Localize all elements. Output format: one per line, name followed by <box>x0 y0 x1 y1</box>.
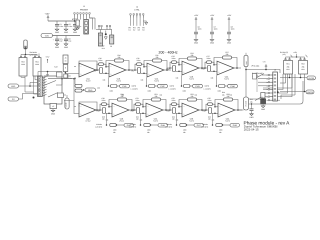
svg-text:10u: 10u <box>68 40 71 43</box>
svg-text:22k: 22k <box>155 95 158 98</box>
svg-text:22k: 22k <box>227 95 230 98</box>
svg-text:GND: GND <box>55 31 60 34</box>
svg-text:R25: R25 <box>167 110 170 113</box>
svg-text:100n: 100n <box>59 25 63 28</box>
svg-text:R12: R12 <box>167 68 170 71</box>
svg-text:TL072: TL072 <box>86 79 91 82</box>
svg-text:100n: 100n <box>207 57 211 60</box>
svg-text:TL072: TL072 <box>225 119 230 122</box>
svg-text:TL072: TL072 <box>153 119 158 122</box>
svg-text:R28: R28 <box>203 110 206 113</box>
svg-text:100n: 100n <box>172 99 176 102</box>
svg-text:10k: 10k <box>140 118 143 121</box>
svg-text:S2: S2 <box>133 29 135 32</box>
svg-text:(PHA 40k): (PHA 40k) <box>252 65 260 68</box>
svg-text:10k: 10k <box>176 76 179 79</box>
svg-text:100n: 100n <box>136 99 140 102</box>
svg-text:TL072: TL072 <box>189 119 194 122</box>
svg-text:22k: 22k <box>226 53 229 56</box>
svg-text:100n: 100n <box>99 59 103 62</box>
svg-text:R19: R19 <box>97 110 100 113</box>
svg-text:200 - 400Hz: 200 - 400Hz <box>159 50 178 54</box>
svg-text:100n: 100n <box>137 59 141 62</box>
svg-text:100n: 100n <box>102 99 106 102</box>
svg-text:GND: GND <box>64 46 69 49</box>
svg-text:MODE: MODE <box>65 102 68 108</box>
svg-text:25k: 25k <box>302 65 305 68</box>
svg-text:J1: J1 <box>83 5 85 8</box>
svg-text:J4: J4 <box>136 5 138 8</box>
svg-text:TL072: TL072 <box>189 77 194 80</box>
svg-text:-15V: -15V <box>45 35 50 38</box>
svg-text:+15V: +15V <box>45 13 51 16</box>
svg-text:LFO: LFO <box>11 85 15 88</box>
svg-text:J2: J2 <box>103 45 105 48</box>
svg-text:22k: 22k <box>191 95 194 98</box>
svg-text:TL072: TL072 <box>116 79 121 82</box>
svg-text:R15: R15 <box>202 68 205 71</box>
svg-text:GND: GND <box>210 42 215 45</box>
svg-text:RV3: RV3 <box>21 60 24 63</box>
svg-text:TL072: TL072 <box>224 77 229 80</box>
svg-text:100n: 100n <box>68 25 72 28</box>
svg-text:22k: 22k <box>156 56 159 59</box>
svg-text:R8: R8 <box>94 70 96 73</box>
svg-text:100k: 100k <box>35 63 39 66</box>
svg-text:+: + <box>62 38 63 41</box>
svg-text:2022-04-15: 2022-04-15 <box>244 127 259 131</box>
svg-text:OUTB: OUTB <box>307 91 313 94</box>
svg-text:10k: 10k <box>106 118 109 121</box>
svg-text:LF412: LF412 <box>86 119 91 122</box>
svg-text:GND: GND <box>250 116 255 119</box>
svg-text:100n: 100n <box>231 28 235 31</box>
svg-text:10k: 10k <box>97 86 100 89</box>
svg-text:10k: 10k <box>211 76 214 79</box>
svg-text:22k: 22k <box>191 54 194 57</box>
svg-text:CTRL: CTRL <box>134 9 140 12</box>
svg-text:S4: S4 <box>142 29 144 32</box>
svg-text:100n: 100n <box>172 57 176 60</box>
svg-text:TL072: TL072 <box>154 79 159 82</box>
svg-text:GND: GND <box>51 112 56 115</box>
svg-text:S3: S3 <box>138 29 140 32</box>
svg-text:RV4: RV4 <box>35 60 38 63</box>
svg-text:SW MAIN: SW MAIN <box>30 51 38 54</box>
svg-text:R9: R9 <box>132 70 134 73</box>
svg-text:POWER: POWER <box>80 9 88 12</box>
svg-text:GND: GND <box>261 108 266 111</box>
svg-text:GND: GND <box>194 42 199 45</box>
svg-text:RV2: RV2 <box>301 63 304 66</box>
svg-text:10k: 10k <box>103 78 106 81</box>
svg-text:100k: 100k <box>21 63 25 66</box>
svg-text:GND: GND <box>227 42 232 45</box>
svg-text:GND: GND <box>73 31 78 34</box>
svg-text:S1: S1 <box>128 29 130 32</box>
svg-text:GND: GND <box>55 46 60 49</box>
svg-text:R22: R22 <box>131 110 134 113</box>
svg-text:OUTA: OUTA <box>309 77 315 80</box>
svg-text:J5: J5 <box>274 69 276 72</box>
svg-text:25k: 25k <box>287 65 290 68</box>
svg-text:10k: 10k <box>176 118 179 121</box>
svg-text:+: + <box>53 38 54 41</box>
svg-text:RV1: RV1 <box>286 63 289 66</box>
svg-text:10k: 10k <box>212 118 215 121</box>
svg-text:22k: 22k <box>121 95 124 98</box>
svg-text:10k: 10k <box>141 78 144 81</box>
svg-text:100n: 100n <box>214 28 218 31</box>
svg-text:RV BAL(?): RV BAL(?) <box>280 51 288 54</box>
svg-text:22k: 22k <box>118 56 121 59</box>
svg-text:100n: 100n <box>208 99 212 102</box>
svg-text:100n: 100n <box>198 28 202 31</box>
svg-text:J3: J3 <box>110 45 112 48</box>
svg-text:LF412: LF412 <box>119 119 124 122</box>
svg-text:GND: GND <box>64 31 69 34</box>
